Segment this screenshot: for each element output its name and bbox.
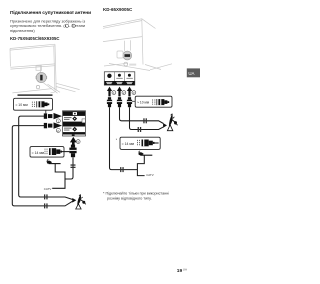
mini dish right (138, 151, 152, 155)
staircase wire right (137, 155, 144, 175)
label 10mm (137, 101, 150, 105)
paragraph (10, 18, 85, 33)
mini dish (47, 159, 61, 163)
socket 2 (118, 74, 121, 77)
left tv connector circle (36, 72, 48, 82)
barrel joint loop2 (44, 203, 48, 208)
svg-text:підключення): підключення) (10, 28, 35, 33)
staircase wires (52, 164, 65, 188)
loop from C2 (12, 126, 72, 206)
svg-text:розніму відповідного типу.: розніму відповідного типу. (107, 197, 152, 201)
svg-text:19: 19 (177, 268, 183, 274)
stripped cable marks (137, 140, 139, 146)
up arrow (72, 142, 75, 148)
dish left (76, 194, 86, 209)
socket 1 (107, 74, 111, 78)
arrow into SUB (54, 122, 63, 128)
box 14mm right (120, 137, 160, 149)
diamond SUB (72, 127, 77, 132)
label strip (105, 81, 135, 85)
socket 3 (128, 74, 131, 77)
right tv connector circle (123, 51, 132, 60)
svg-text:≈ 10 мм: ≈ 10 мм (137, 101, 150, 105)
converge arrowhead (72, 198, 76, 203)
F-connector cable 1 (107, 97, 112, 107)
vertical to connector (40, 65, 42, 72)
svg-text:≈ 14 мм: ≈ 14 мм (32, 151, 45, 155)
bottom dot (72, 135, 75, 136)
arrow into MAIN (54, 113, 63, 119)
circled step 2 (122, 91, 126, 95)
band2 (63, 122, 85, 127)
cable2 loop (120, 107, 164, 123)
tv right edge (54, 44, 56, 90)
box 10mm (14, 98, 53, 110)
cell 2 caption (116, 77, 122, 80)
loop from C1 (19, 116, 73, 199)
svg-text:* Підключайте тільки при викор: * Підключайте тільки при використанні (103, 191, 169, 195)
asterisk (116, 138, 118, 142)
dish right (167, 114, 177, 131)
cable connector in box (142, 140, 155, 147)
circled step 3 (132, 91, 136, 95)
stub to connector 3 (132, 100, 135, 102)
stub wire (155, 142, 159, 144)
diamond MAIN (72, 116, 77, 121)
circled 3 (76, 140, 80, 144)
up arrow 1 (107, 87, 112, 97)
band3 (63, 132, 85, 134)
strip labels (106, 82, 132, 84)
cable down from connector (65, 157, 73, 179)
svg-text:UA: UA (188, 71, 194, 76)
box 10mm right (135, 96, 172, 107)
stub box to vertical connector line (62, 151, 69, 153)
label 14mm (122, 142, 135, 146)
panel body (104, 72, 135, 85)
tv bottom corner (51, 90, 57, 93)
row1 texts (64, 117, 72, 118)
svg-text:KD-65X9005C: KD-65X9005C (103, 7, 133, 12)
cable strip marks (32, 102, 34, 107)
cable1 long (110, 107, 138, 169)
stripped cable marks (153, 99, 155, 104)
barrel joint loop1 (44, 194, 48, 199)
CATV label left (44, 187, 52, 191)
tv stand dark bar (18, 94, 53, 96)
circled 2 (56, 128, 60, 132)
circled step 1 (112, 91, 116, 95)
circled 1 (56, 119, 60, 123)
up arrow 2 (117, 87, 122, 97)
converge arrowhead right (163, 123, 167, 128)
F-connector cable 3 (127, 97, 132, 107)
tv top edge (10, 44, 55, 50)
tv shelf lines (10, 64, 55, 69)
svg-text:KD-75X9405C/65X9305C: KD-75X9405C/65X9305C (10, 36, 59, 41)
chip right (82, 119, 85, 123)
cable3 loop (130, 107, 164, 129)
cable connector in box (39, 101, 45, 107)
stub box to connector1 (45, 110, 47, 113)
svg-text:Підключення супутникової антен: Підключення супутникової антени (10, 10, 91, 16)
tv small rect (36, 66, 42, 70)
connector C1 (44, 113, 53, 118)
svg-text:UA: UA (183, 268, 187, 272)
cell 3 caption (126, 77, 132, 80)
cell dividers (114, 72, 124, 81)
tv left edge (9, 49, 11, 67)
svg-text:CATV: CATV (44, 187, 52, 191)
up arrow 3 (127, 87, 132, 97)
band1 (63, 111, 85, 116)
svg-text:≈ 14 мм: ≈ 14 мм (122, 142, 135, 146)
cable connector in box (158, 99, 169, 105)
barrel on vertical (71, 164, 76, 168)
right tv label (129, 64, 136, 66)
right tv port rect (117, 51, 123, 58)
svg-text:≈ 10 мм: ≈ 10 мм (16, 103, 29, 107)
row2 texts (64, 128, 72, 129)
connector C2 (44, 123, 53, 128)
CATV label right (146, 173, 154, 177)
left tv small circle (36, 85, 39, 88)
tv stand lines (12, 83, 79, 93)
F-connector cable 2 (117, 97, 122, 107)
svg-text:CATV: CATV (146, 173, 154, 177)
